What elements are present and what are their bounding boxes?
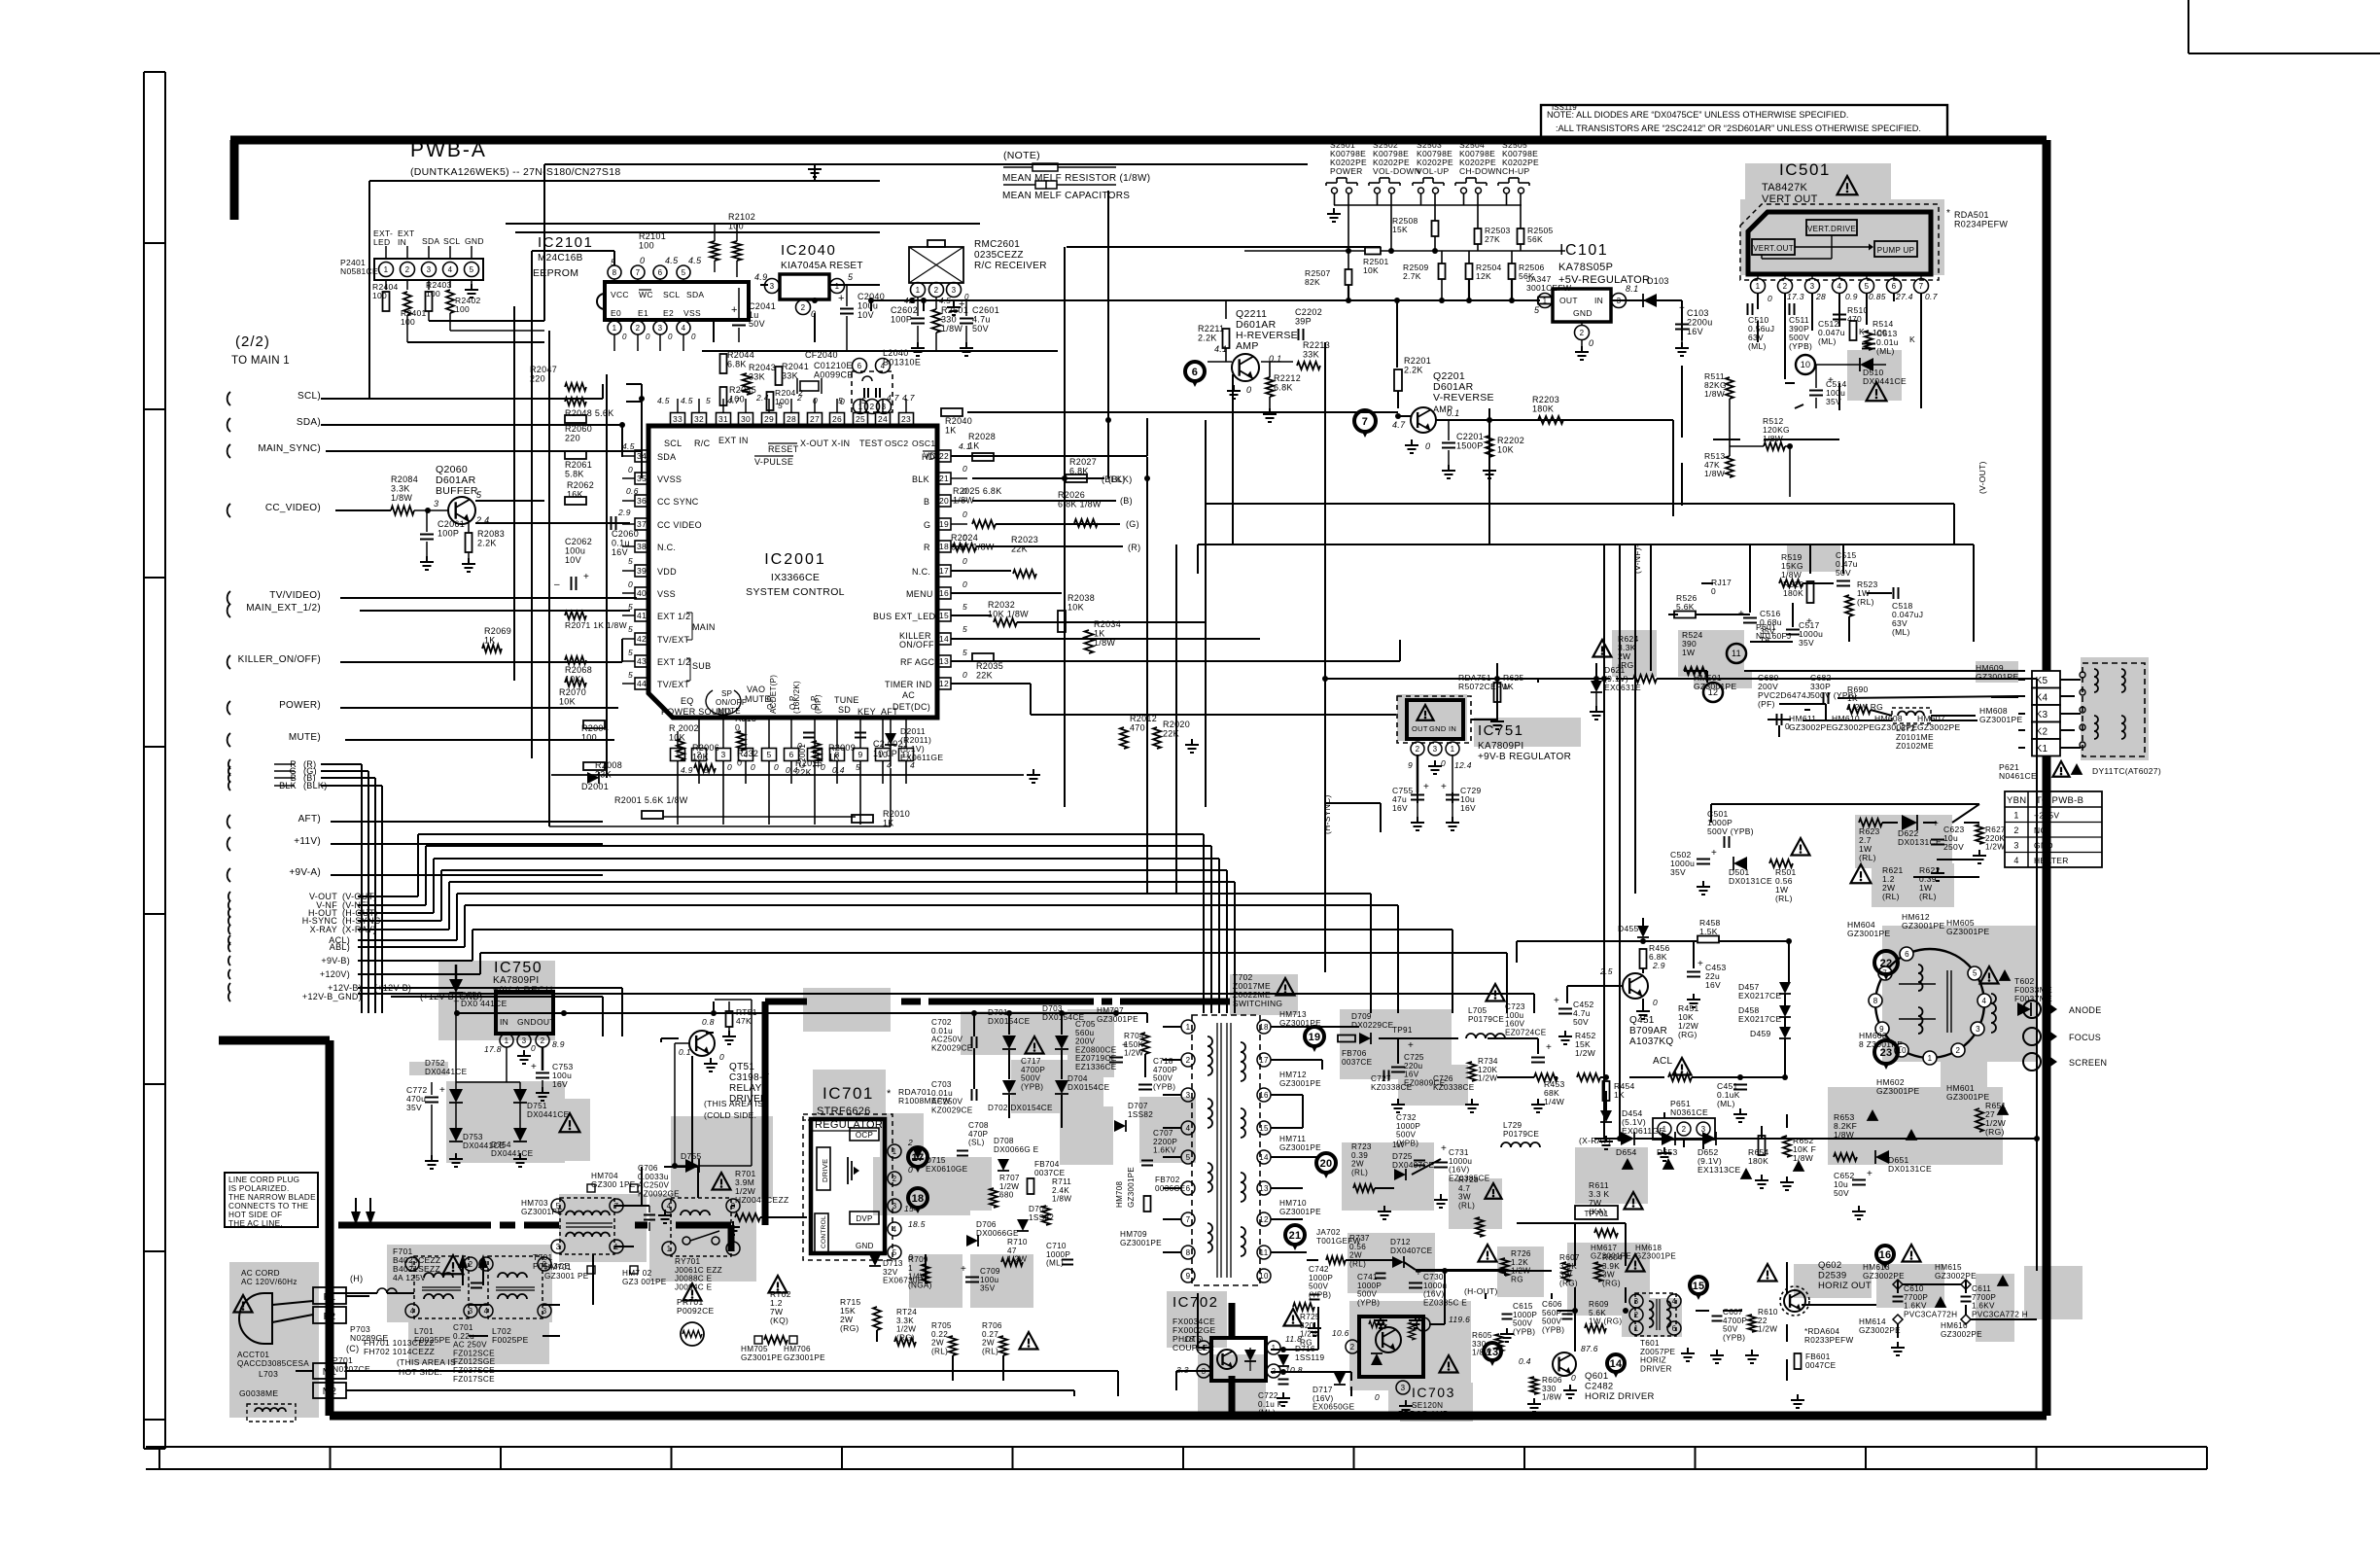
svg-text:1/4W: 1/4W bbox=[1544, 1097, 1564, 1106]
svg-text:28: 28 bbox=[787, 414, 796, 424]
svg-text:0: 0 bbox=[962, 670, 967, 680]
svg-text:C2601: C2601 bbox=[972, 305, 999, 315]
R715 bbox=[840, 1297, 881, 1333]
svg-text:32: 32 bbox=[694, 414, 704, 424]
svg-text:(H): (H) bbox=[350, 1274, 363, 1283]
Q601 horiz driver cluster bbox=[1472, 1253, 1655, 1412]
svg-text:0: 0 bbox=[622, 333, 627, 341]
svg-text:R707: R707 bbox=[999, 1174, 1020, 1182]
svg-text:D455: D455 bbox=[1618, 924, 1639, 933]
svg-text:2.2K: 2.2K bbox=[1198, 334, 1217, 343]
svg-text:R: R bbox=[924, 543, 930, 552]
resistor R2084 bbox=[335, 474, 448, 515]
IC501 vertical out bbox=[1740, 160, 2008, 303]
svg-text:HM706: HM706 bbox=[784, 1345, 811, 1353]
svg-text:L2040: L2040 bbox=[883, 348, 909, 358]
C732 L729 bbox=[1396, 1113, 1540, 1166]
svg-text:(H-SYNC): (H-SYNC) bbox=[1322, 794, 1332, 834]
C706 bbox=[638, 1164, 680, 1231]
C2602 R2601 C2601 bbox=[891, 298, 999, 356]
svg-text:2W: 2W bbox=[1349, 1251, 1362, 1260]
svg-text:+: + bbox=[1441, 1143, 1447, 1154]
svg-text:HM711: HM711 bbox=[1279, 1135, 1306, 1143]
svg-text:D715: D715 bbox=[926, 1156, 946, 1165]
svg-text:1/8W: 1/8W bbox=[391, 493, 412, 503]
svg-text:2W: 2W bbox=[1351, 1160, 1364, 1169]
svg-text:500V: 500V bbox=[1153, 1074, 1173, 1083]
connector P1 P2 bbox=[313, 1274, 363, 1323]
svg-text:EX0217CE: EX0217CE bbox=[1738, 991, 1781, 1001]
svg-text:2: 2 bbox=[1682, 1125, 1687, 1134]
svg-text:15: 15 bbox=[1693, 1281, 1705, 1292]
svg-text:R2010: R2010 bbox=[883, 809, 910, 819]
svg-text:C2201: C2201 bbox=[1456, 432, 1484, 441]
R625 D621 R624 bbox=[1490, 634, 1657, 729]
svg-text:100: 100 bbox=[639, 241, 654, 251]
svg-text:1/8W: 1/8W bbox=[1052, 1195, 1071, 1204]
svg-text:VCC: VCC bbox=[611, 290, 629, 299]
svg-text:0: 0 bbox=[962, 556, 967, 566]
svg-text:HM613: HM613 bbox=[1863, 1263, 1890, 1272]
connector K5-K1 bbox=[2032, 671, 2060, 756]
svg-text:44: 44 bbox=[637, 679, 647, 688]
svg-text:50V: 50V bbox=[972, 324, 989, 334]
svg-text:10K: 10K bbox=[692, 753, 709, 762]
svg-text:1/2W: 1/2W bbox=[1300, 1330, 1319, 1339]
R704 C718 bbox=[1124, 1032, 1177, 1091]
svg-text:3: 3 bbox=[952, 286, 957, 295]
R519 R520 C515-C518 cluster bbox=[1674, 550, 1923, 648]
svg-text:YBN: YBN bbox=[2007, 795, 2026, 806]
svg-text:+: + bbox=[439, 1085, 445, 1096]
svg-text:RELAY: RELAY bbox=[729, 1083, 762, 1094]
svg-text:1/8W: 1/8W bbox=[1542, 1393, 1561, 1402]
svg-text:C717: C717 bbox=[1021, 1057, 1041, 1066]
svg-text:15K: 15K bbox=[1392, 225, 1408, 234]
svg-text:(16V): (16V) bbox=[1449, 1166, 1470, 1175]
svg-text:V-REVERSE: V-REVERSE bbox=[1433, 392, 1494, 404]
svg-text:1: 1 bbox=[908, 1264, 913, 1273]
svg-text:3: 3 bbox=[1186, 1091, 1191, 1100]
svg-text:SYSTEM CONTROL: SYSTEM CONTROL bbox=[746, 586, 845, 598]
svg-text:1/2W: 1/2W bbox=[999, 1182, 1019, 1191]
svg-text:GZ3001PE: GZ3001PE bbox=[1127, 1167, 1136, 1208]
svg-text:+: + bbox=[1423, 782, 1429, 792]
svg-text:FH702 1014CEZZ: FH702 1014CEZZ bbox=[364, 1347, 435, 1356]
svg-text:1/8W: 1/8W bbox=[941, 324, 962, 334]
svg-text:(DUNTKA126WEK5) -- 27N-S180/CN: (DUNTKA126WEK5) -- 27N-S180/CN27S18 bbox=[410, 166, 621, 178]
svg-text:GZ3002PE: GZ3002PE bbox=[1863, 1272, 1905, 1281]
svg-text:5: 5 bbox=[628, 648, 633, 657]
svg-text:+: + bbox=[1933, 819, 1939, 829]
svg-text:–: – bbox=[554, 579, 560, 590]
svg-text:0.4: 0.4 bbox=[832, 765, 845, 775]
svg-text:FZ012SCE: FZ012SCE bbox=[453, 1349, 495, 1357]
svg-text:(16V): (16V) bbox=[1423, 1290, 1445, 1299]
svg-text:(ML): (ML) bbox=[1818, 336, 1837, 346]
svg-text:2: 2 bbox=[469, 1260, 473, 1269]
svg-text:C615: C615 bbox=[1513, 1302, 1533, 1311]
svg-text:4.5: 4.5 bbox=[622, 441, 635, 451]
svg-text:5: 5 bbox=[706, 396, 711, 405]
svg-text:EX0650GE: EX0650GE bbox=[1312, 1403, 1355, 1412]
border RGB tags bbox=[0, 0, 1, 1]
BLK tag near IC2001 bbox=[1102, 474, 1126, 484]
svg-text:+9V-B): +9V-B) bbox=[321, 956, 350, 966]
svg-text:0.1: 0.1 bbox=[1447, 408, 1459, 418]
IC2001 left pins 34-44 bbox=[622, 450, 648, 689]
svg-text:0037CE: 0037CE bbox=[1034, 1169, 1066, 1177]
svg-text:DET(DC): DET(DC) bbox=[892, 702, 930, 712]
svg-text:C103: C103 bbox=[1687, 308, 1709, 318]
svg-text:(BLK): (BLK) bbox=[1102, 474, 1126, 484]
svg-text:N0581CE: N0581CE bbox=[340, 266, 378, 276]
svg-text:FZ012SGE: FZ012SGE bbox=[453, 1357, 496, 1366]
svg-text:D653: D653 bbox=[1657, 1147, 1678, 1157]
svg-text:2200P: 2200P bbox=[1153, 1138, 1177, 1146]
svg-text:D709: D709 bbox=[1351, 1012, 1372, 1021]
svg-text:AC: AC bbox=[902, 690, 915, 700]
svg-text:35V: 35V bbox=[1799, 638, 1814, 648]
svg-text:0: 0 bbox=[962, 579, 967, 589]
svg-text:+: + bbox=[838, 293, 845, 304]
svg-text:IC703: IC703 bbox=[1412, 1385, 1455, 1400]
svg-text:0: 0 bbox=[962, 464, 967, 474]
svg-text:R0233PEFW: R0233PEFW bbox=[1804, 1336, 1853, 1345]
svg-text:4.7: 4.7 bbox=[902, 393, 915, 403]
svg-text:(ML): (ML) bbox=[1892, 627, 1910, 637]
svg-text:LED: LED bbox=[373, 237, 390, 247]
svg-text:38: 38 bbox=[637, 542, 647, 551]
svg-text:1: 1 bbox=[505, 1036, 509, 1045]
svg-text:VOL-UP: VOL-UP bbox=[1417, 166, 1449, 176]
hot-cold boundary thick line bbox=[338, 1001, 1232, 1413]
svg-text:2: 2 bbox=[801, 303, 806, 312]
svg-text:4: 4 bbox=[448, 265, 453, 274]
svg-text:40: 40 bbox=[637, 588, 647, 598]
C510 C511 C512 C513 R510 R514 bbox=[1748, 303, 1916, 356]
svg-text:R2006: R2006 bbox=[692, 743, 719, 753]
svg-text:0: 0 bbox=[1711, 586, 1716, 596]
line cord note bbox=[225, 1173, 318, 1228]
svg-text:10 0P: 10 0P bbox=[873, 749, 897, 758]
svg-text:IS POLARIZED.: IS POLARIZED. bbox=[228, 1184, 290, 1193]
svg-text:2.9: 2.9 bbox=[617, 508, 631, 517]
svg-text:D706: D706 bbox=[976, 1220, 997, 1229]
svg-text:R609: R609 bbox=[1589, 1300, 1609, 1309]
svg-text:THE AC LINE.: THE AC LINE. bbox=[228, 1219, 283, 1228]
svg-text:OUT: OUT bbox=[1412, 724, 1428, 733]
svg-text:GZ3001PE: GZ3001PE bbox=[1946, 1092, 1989, 1102]
svg-text:15: 15 bbox=[939, 611, 949, 620]
CRT socket bbox=[1869, 947, 1991, 1065]
HM709-HM713 bbox=[1120, 1010, 1321, 1247]
svg-text:DX0229CE: DX0229CE bbox=[1351, 1021, 1394, 1030]
svg-text:VERT.OUT: VERT.OUT bbox=[1753, 244, 1794, 253]
svg-text:+9V-A): +9V-A) bbox=[289, 867, 321, 878]
svg-text:18: 18 bbox=[1259, 1023, 1269, 1032]
svg-text:500V: 500V bbox=[1309, 1282, 1329, 1291]
svg-text:1K: 1K bbox=[945, 426, 957, 436]
svg-text:3001CEFW: 3001CEFW bbox=[1526, 283, 1571, 293]
svg-text:C708: C708 bbox=[968, 1121, 989, 1130]
svg-text:(THIS AREA IS: (THIS AREA IS bbox=[704, 1099, 763, 1108]
svg-text:0: 0 bbox=[840, 397, 845, 406]
svg-text:1000P: 1000P bbox=[1513, 1311, 1537, 1319]
P621 YBN table bbox=[1999, 762, 2102, 867]
svg-text:R/C: R/C bbox=[694, 439, 711, 448]
svg-text:DRIVER: DRIVER bbox=[1640, 1364, 1672, 1373]
svg-text:1/2W: 1/2W bbox=[1758, 1325, 1777, 1334]
svg-text:+: + bbox=[1867, 1169, 1872, 1179]
svg-text:EX0217CE: EX0217CE bbox=[1738, 1014, 1781, 1024]
D716 D717 C722 R725 bbox=[1258, 1303, 1355, 1418]
svg-text:0: 0 bbox=[737, 758, 742, 768]
svg-text:22: 22 bbox=[1758, 1317, 1767, 1325]
svg-text:8: 8 bbox=[612, 268, 617, 277]
switch S2502 VOL-DOWN bbox=[1369, 140, 1420, 205]
svg-text:50V: 50V bbox=[1573, 1017, 1589, 1027]
svg-text:GZ3001PE: GZ3001PE bbox=[521, 1208, 563, 1216]
svg-text:GZ3001PE: GZ3001PE bbox=[1279, 1208, 1321, 1216]
D510 C514 bbox=[1796, 355, 1907, 408]
svg-text:1: 1 bbox=[1756, 282, 1761, 291]
svg-text:0: 0 bbox=[908, 1165, 913, 1175]
IC2001 right pins 22-12 bbox=[937, 450, 967, 689]
svg-text:50V: 50V bbox=[1723, 1325, 1738, 1334]
svg-text:ACCT01: ACCT01 bbox=[237, 1351, 269, 1359]
svg-text:D752: D752 bbox=[425, 1059, 445, 1068]
svg-text:CONNECTS TO THE: CONNECTS TO THE bbox=[228, 1202, 309, 1211]
component cluster below IC2001 bbox=[581, 714, 1199, 828]
connector tag TV/VIDEO bbox=[227, 590, 321, 605]
svg-text:100: 100 bbox=[426, 289, 440, 298]
svg-text:DY11TC(AT6027): DY11TC(AT6027) bbox=[2092, 766, 2161, 776]
relay RY701 bbox=[662, 1198, 740, 1291]
svg-text:0: 0 bbox=[1785, 721, 1790, 731]
svg-text:(ML): (ML) bbox=[1748, 341, 1767, 351]
svg-text:C742: C742 bbox=[1309, 1265, 1329, 1274]
svg-text:0: 0 bbox=[531, 1043, 536, 1053]
IC701 STRF6626 bbox=[803, 1084, 951, 1262]
svg-text:1: 1 bbox=[612, 324, 617, 333]
svg-text:2: 2 bbox=[1186, 1056, 1191, 1065]
svg-text:SDA: SDA bbox=[686, 290, 704, 299]
svg-text:C741: C741 bbox=[1357, 1273, 1378, 1282]
svg-text:SDA): SDA) bbox=[297, 417, 321, 428]
svg-text:100: 100 bbox=[455, 304, 470, 314]
svg-text:R2071 1K 1/8W: R2071 1K 1/8W bbox=[565, 620, 627, 630]
svg-text:TO PWB-B: TO PWB-B bbox=[2036, 795, 2083, 806]
svg-text:C607: C607 bbox=[1723, 1308, 1743, 1317]
svg-text:10: 10 bbox=[1259, 1272, 1269, 1281]
svg-text:MUTE): MUTE) bbox=[289, 732, 321, 743]
R623 D622 C623 R627 R621 R622 bbox=[1851, 815, 2006, 901]
svg-text:*: * bbox=[887, 1088, 892, 1100]
C2202 R2213 R2212 bbox=[1261, 307, 1330, 422]
svg-text:10K: 10K bbox=[559, 697, 576, 707]
svg-text:1.5K: 1.5K bbox=[1699, 927, 1718, 936]
svg-text:GZ3001 PE: GZ3001 PE bbox=[544, 1272, 589, 1281]
svg-text:SDA: SDA bbox=[657, 452, 676, 462]
svg-text:+: + bbox=[1806, 616, 1812, 627]
svg-text:R604: R604 bbox=[1602, 1253, 1623, 1262]
svg-text:0.01u: 0.01u bbox=[931, 1027, 953, 1036]
svg-text:GZ3001PE: GZ3001PE bbox=[1120, 1239, 1162, 1247]
svg-text:F0025PE: F0025PE bbox=[492, 1335, 529, 1345]
svg-text:5: 5 bbox=[766, 750, 771, 759]
svg-text:1/2W: 1/2W bbox=[1478, 1074, 1497, 1083]
svg-text:R2211: R2211 bbox=[1198, 324, 1224, 334]
svg-text:470: 470 bbox=[1130, 723, 1145, 733]
svg-text:1K: 1K bbox=[484, 636, 496, 646]
R737 D712 C730 C741 C742 R726 bbox=[1308, 1228, 1531, 1336]
svg-text:3W: 3W bbox=[1458, 1193, 1471, 1202]
svg-text:0037CE: 0037CE bbox=[1342, 1058, 1373, 1067]
D709 C723 C725-C727 L705 R734 bbox=[1338, 984, 1552, 1112]
svg-text:PVC3CA772 H: PVC3CA772 H bbox=[1972, 1310, 2028, 1318]
svg-text:N0207CE: N0207CE bbox=[332, 1364, 370, 1374]
svg-text:KZ0338CE: KZ0338CE bbox=[1433, 1083, 1475, 1092]
PR701 posistor bbox=[677, 1283, 715, 1346]
connector M1 M2 / L703 bbox=[239, 1363, 346, 1422]
svg-text:32V: 32V bbox=[883, 1268, 898, 1277]
svg-text:1K: 1K bbox=[828, 753, 840, 762]
connector tags R G B BLK bbox=[228, 759, 328, 790]
svg-text:D751: D751 bbox=[527, 1102, 547, 1110]
svg-text:12K: 12K bbox=[1476, 271, 1491, 281]
svg-text:4: 4 bbox=[1186, 1124, 1191, 1133]
svg-text:100P: 100P bbox=[437, 529, 459, 539]
svg-text:500V (YPB): 500V (YPB) bbox=[1707, 826, 1754, 836]
svg-text:330: 330 bbox=[941, 315, 957, 325]
svg-text:P0092CE: P0092CE bbox=[677, 1306, 715, 1316]
svg-text:EXT 1/2: EXT 1/2 bbox=[657, 657, 690, 667]
transistor Q2211 H-reverse bbox=[1185, 300, 1298, 399]
svg-text:2.2K: 2.2K bbox=[1404, 366, 1423, 375]
svg-text:500V: 500V bbox=[1513, 1319, 1533, 1328]
svg-text:(ML): (ML) bbox=[1717, 1099, 1735, 1108]
svg-text:SCL: SCL bbox=[663, 290, 680, 299]
svg-text:100P: 100P bbox=[812, 749, 821, 768]
svg-text:KZ0029CE: KZ0029CE bbox=[931, 1106, 973, 1114]
svg-text:STRF6626: STRF6626 bbox=[817, 1106, 871, 1117]
svg-text:100u: 100u bbox=[980, 1276, 999, 1284]
svg-text:37: 37 bbox=[637, 519, 647, 529]
svg-text:1/2W: 1/2W bbox=[1575, 1048, 1595, 1058]
svg-text:MAIN_EXT_1/2): MAIN_EXT_1/2) bbox=[246, 603, 321, 614]
svg-text:*RDA604: *RDA604 bbox=[1804, 1327, 1839, 1336]
svg-text:4.5: 4.5 bbox=[681, 396, 693, 405]
svg-text:OCP: OCP bbox=[856, 1131, 873, 1140]
svg-text:C723: C723 bbox=[1505, 1002, 1525, 1011]
svg-text:D713: D713 bbox=[883, 1259, 903, 1268]
svg-text:5: 5 bbox=[962, 624, 967, 634]
svg-text:(V-OUT): (V-OUT) bbox=[1977, 461, 1987, 494]
svg-text:CC VIDEO: CC VIDEO bbox=[657, 520, 702, 530]
svg-text:FB704: FB704 bbox=[1034, 1160, 1060, 1169]
svg-text:AFT): AFT) bbox=[298, 814, 321, 825]
svg-text:0: 0 bbox=[1653, 998, 1658, 1007]
svg-text:7: 7 bbox=[1362, 416, 1368, 428]
svg-text:1000P: 1000P bbox=[1046, 1250, 1070, 1259]
svg-text:TO MAIN 1: TO MAIN 1 bbox=[231, 355, 290, 367]
svg-text:C726: C726 bbox=[1433, 1074, 1453, 1083]
connector tag POWER bbox=[227, 700, 321, 715]
svg-text:GZ3001PE: GZ3001PE bbox=[1946, 927, 1989, 936]
svg-text:0.1: 0.1 bbox=[679, 1047, 691, 1057]
svg-text:16V: 16V bbox=[1404, 1071, 1419, 1079]
svg-text:V-PULSE: V-PULSE bbox=[754, 457, 793, 467]
svg-text:3W: 3W bbox=[1602, 1271, 1615, 1280]
svg-text:41: 41 bbox=[637, 611, 647, 620]
svg-text:C722: C722 bbox=[1258, 1391, 1278, 1400]
svg-text:IN: IN bbox=[398, 237, 406, 247]
svg-text:500V: 500V bbox=[1357, 1290, 1378, 1299]
svg-text:2: 2 bbox=[1783, 282, 1788, 291]
svg-text:4700P: 4700P bbox=[1021, 1066, 1045, 1074]
svg-text:2200u: 2200u bbox=[1687, 318, 1713, 328]
svg-text:GND: GND bbox=[1573, 308, 1592, 318]
svg-text:GZ3001PE: GZ3001PE bbox=[1279, 1079, 1321, 1088]
svg-text:0: 0 bbox=[813, 396, 818, 405]
svg-text:Q601: Q601 bbox=[1585, 1371, 1608, 1382]
svg-text:6: 6 bbox=[1905, 950, 1909, 959]
svg-text:R5072CEFW: R5072CEFW bbox=[1458, 682, 1510, 691]
svg-text:C611: C611 bbox=[1972, 1284, 1991, 1293]
svg-text:1: 1 bbox=[835, 282, 840, 291]
bottom ruler row bbox=[146, 1447, 2207, 1469]
svg-text:C707: C707 bbox=[1153, 1129, 1173, 1138]
svg-text:0: 0 bbox=[640, 256, 645, 265]
svg-text:6: 6 bbox=[1186, 1184, 1191, 1193]
svg-text:5: 5 bbox=[628, 670, 633, 680]
svg-text:(X-RAY): (X-RAY) bbox=[1579, 1136, 1611, 1145]
svg-text:680: 680 bbox=[999, 1191, 1014, 1200]
svg-text:16V: 16V bbox=[1705, 980, 1721, 990]
svg-text:TIMER IND: TIMER IND bbox=[885, 680, 932, 689]
svg-text:+9V-B REGULATOR: +9V-B REGULATOR bbox=[1478, 752, 1571, 762]
svg-text:10V: 10V bbox=[857, 310, 874, 320]
svg-text:1: 1 bbox=[1928, 1054, 1933, 1063]
svg-text:D103: D103 bbox=[1647, 276, 1669, 286]
svg-text:16V: 16V bbox=[1392, 803, 1408, 813]
svg-text:16V: 16V bbox=[1687, 327, 1703, 336]
svg-text:R2212: R2212 bbox=[1274, 373, 1301, 383]
svg-text:C2001: C2001 bbox=[798, 744, 807, 768]
C2061 R2083 bbox=[420, 510, 505, 572]
svg-text:GZ3001PE: GZ3001PE bbox=[1976, 672, 2018, 682]
svg-text:220u: 220u bbox=[1404, 1062, 1423, 1071]
svg-text:23: 23 bbox=[901, 414, 911, 424]
svg-text:(SL): (SL) bbox=[968, 1139, 985, 1147]
svg-text:EQ: EQ bbox=[681, 696, 694, 706]
svg-text:11: 11 bbox=[1260, 1248, 1269, 1257]
svg-text:IC2001: IC2001 bbox=[764, 551, 826, 568]
transformer T701 bbox=[521, 1172, 667, 1286]
svg-text:0.4: 0.4 bbox=[1519, 1356, 1531, 1366]
D713 bbox=[869, 1254, 924, 1285]
P703 FH701 labels bbox=[332, 1324, 456, 1377]
svg-text:6.8K: 6.8K bbox=[1274, 383, 1293, 393]
svg-text:10K: 10K bbox=[1363, 265, 1379, 275]
svg-text:4: 4 bbox=[892, 1225, 897, 1234]
svg-text:ON/OFF: ON/OFF bbox=[716, 698, 747, 707]
svg-text:1: 1 bbox=[892, 1147, 897, 1156]
svg-text:M2: M2 bbox=[323, 1387, 337, 1397]
svg-text:D704: D704 bbox=[1067, 1074, 1088, 1083]
svg-text:5: 5 bbox=[892, 1248, 897, 1257]
